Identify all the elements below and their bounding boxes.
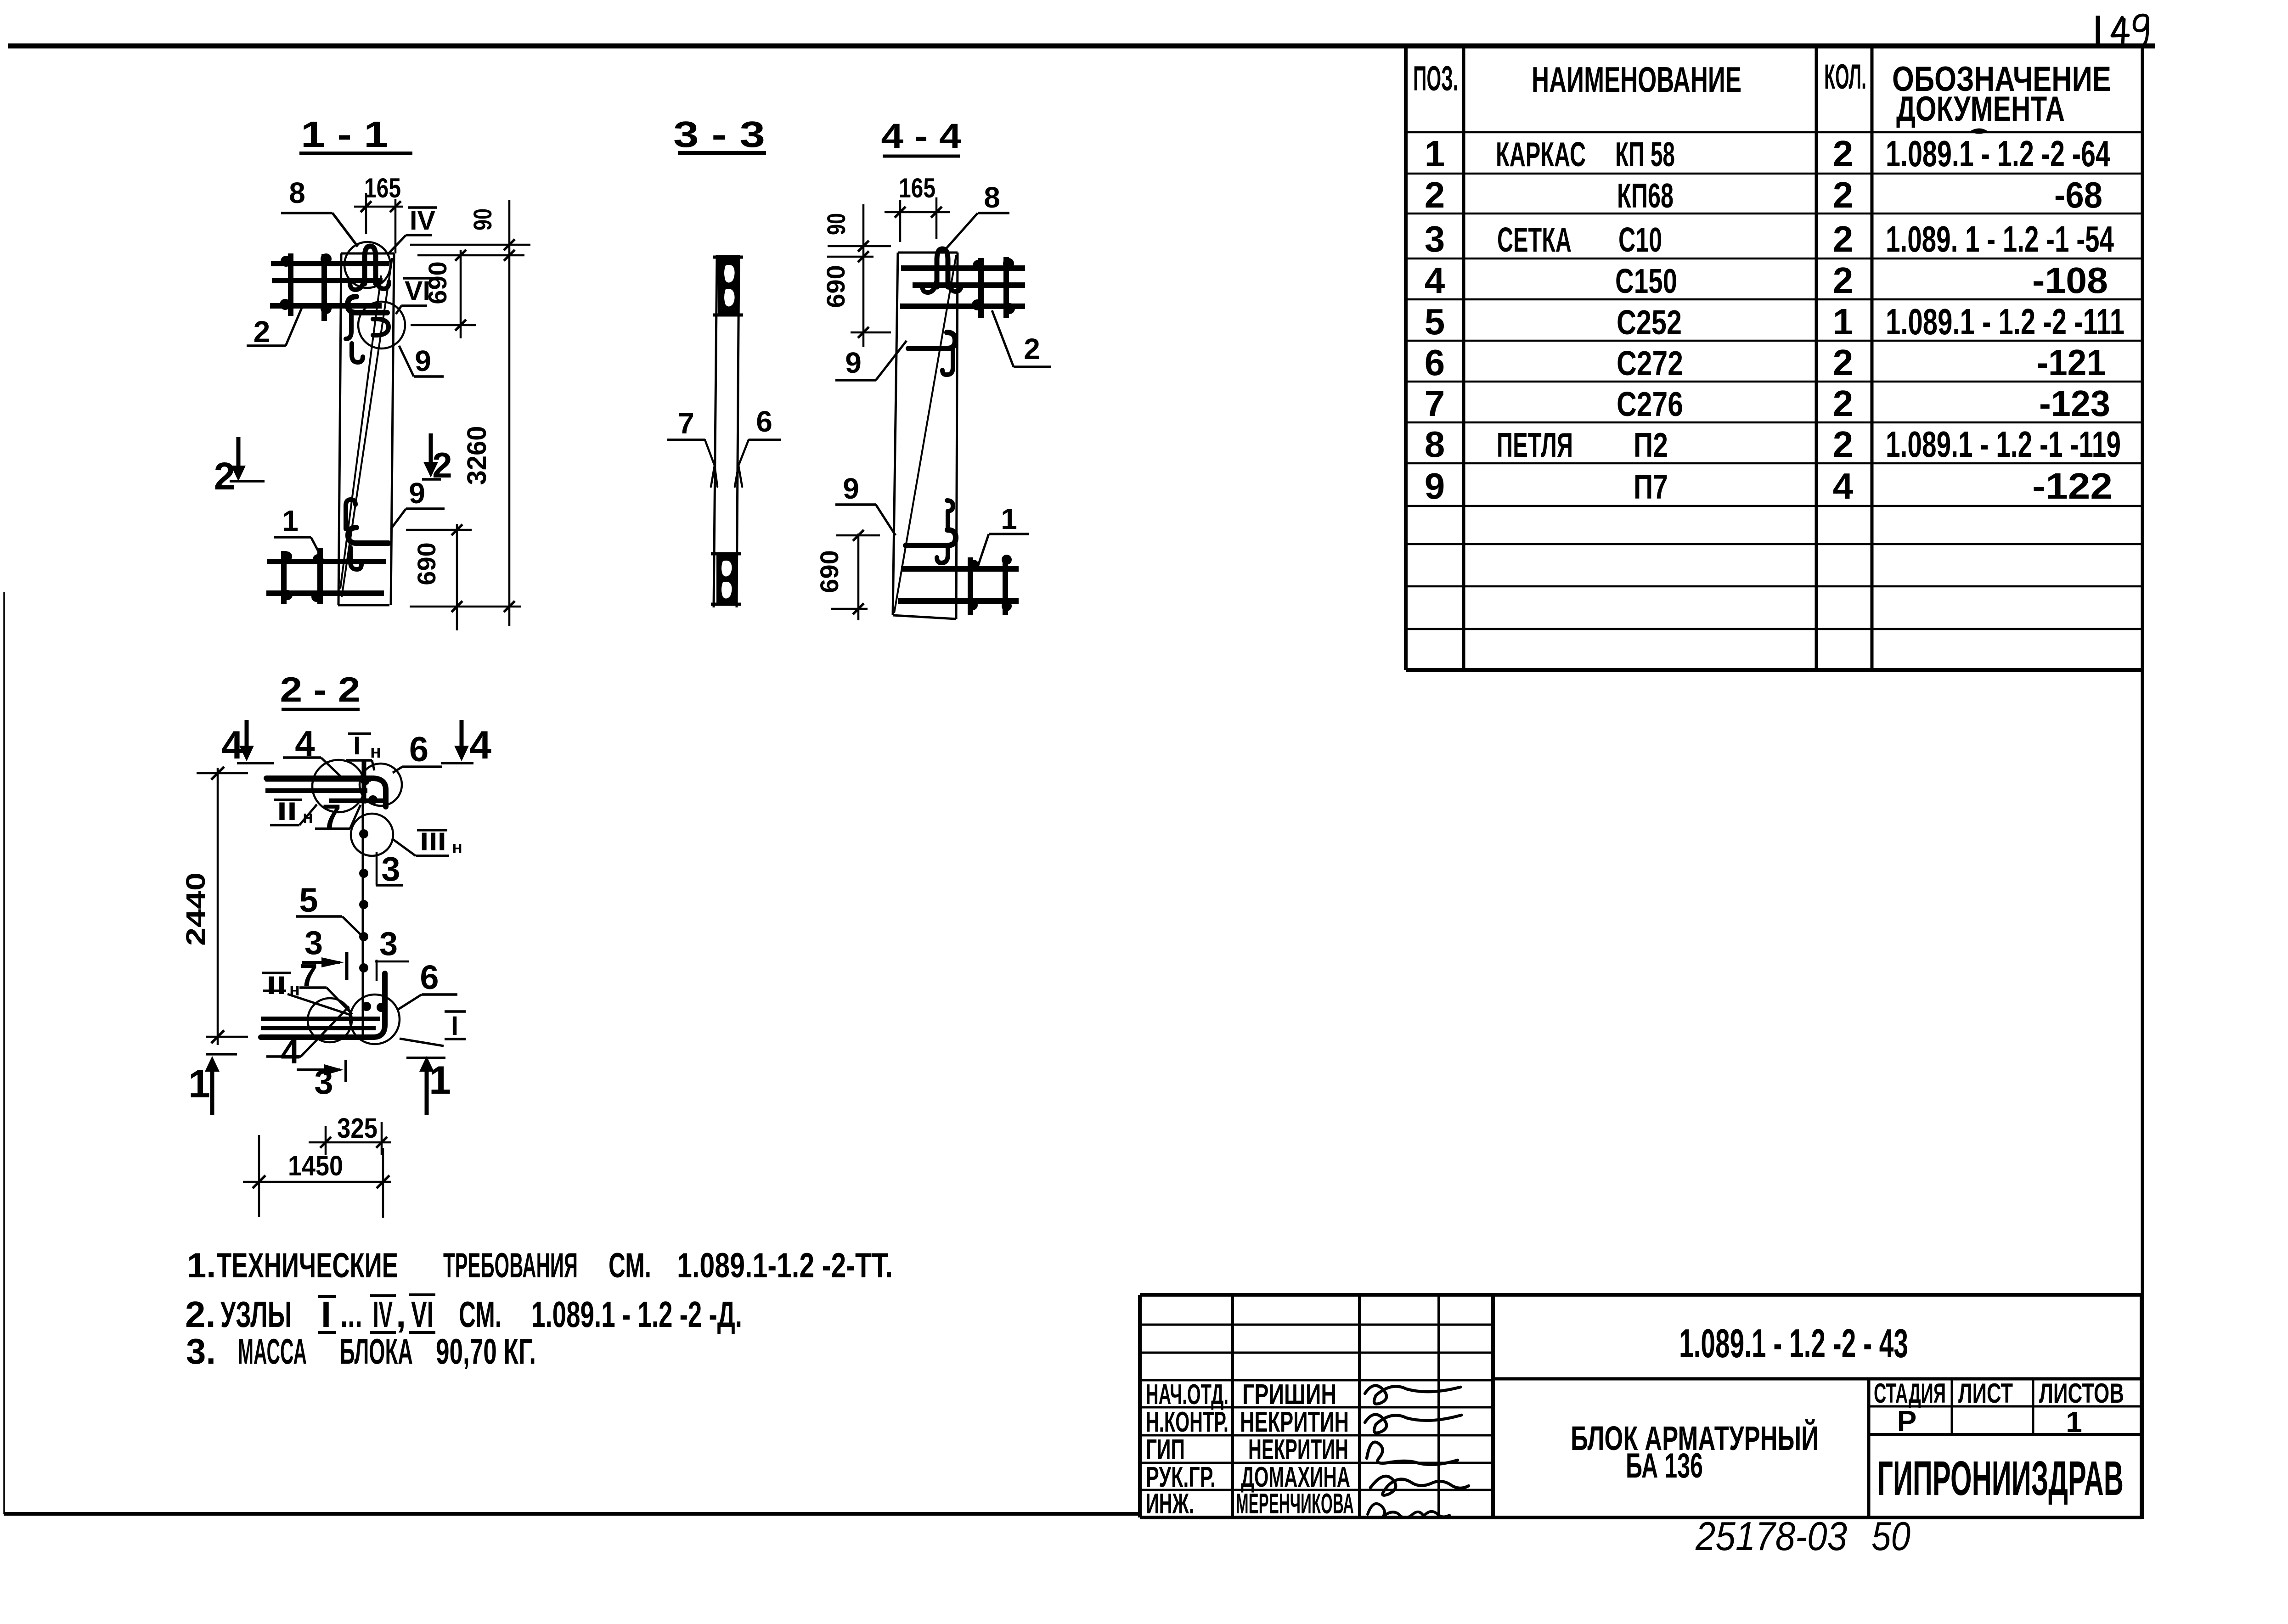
title block big box bbox=[1493, 1293, 2141, 1297]
svg-text:1: 1 bbox=[1001, 502, 1017, 535]
svg-text:-123: -123 bbox=[2039, 383, 2110, 424]
svg-text:2: 2 bbox=[1024, 332, 1040, 365]
svg-text:МАССА: МАССА bbox=[238, 1331, 307, 1371]
svg-text:НАЧ.ОТД.: НАЧ.ОТД. bbox=[1146, 1379, 1229, 1410]
svg-text:1.089.1 - 1.2 -2 -111: 1.089.1 - 1.2 -2 -111 bbox=[1886, 301, 2125, 342]
svg-text:3: 3 bbox=[304, 925, 323, 961]
svg-text:СМ.: СМ. bbox=[459, 1294, 502, 1335]
svg-text:НЕКРИТИН: НЕКРИТИН bbox=[1240, 1406, 1349, 1438]
2-2 detail circle upper A bbox=[312, 760, 365, 812]
svg-text:5: 5 bbox=[1425, 301, 1445, 342]
4-4 inner diagonal bbox=[894, 255, 956, 613]
2-2 vertical bar with dots (pos 5 wire) bbox=[362, 760, 364, 1039]
svg-text:С150: С150 bbox=[1615, 262, 1677, 300]
svg-text:90,70 КГ.: 90,70 КГ. bbox=[436, 1331, 536, 1371]
signature ГРИШИН bbox=[1365, 1386, 1460, 1404]
svg-text:7: 7 bbox=[1425, 383, 1445, 424]
svg-text:н: н bbox=[452, 838, 462, 857]
svg-text:3: 3 bbox=[1425, 219, 1445, 259]
svg-text:9: 9 bbox=[1425, 466, 1445, 506]
svg-text:8: 8 bbox=[1425, 424, 1445, 465]
svg-text:3.: 3. bbox=[186, 1331, 216, 1371]
svg-text:Р: Р bbox=[1897, 1405, 1917, 1438]
svg-text:ТЕХНИЧЕСКИЕ: ТЕХНИЧЕСКИЕ bbox=[217, 1246, 398, 1285]
bottom border line bbox=[4, 1512, 1140, 1516]
svg-text:4: 4 bbox=[469, 723, 491, 767]
svg-text:2: 2 bbox=[254, 315, 271, 348]
svg-text:IV: IV bbox=[373, 1294, 393, 1335]
svg-text:1: 1 bbox=[2066, 1405, 2082, 1439]
svg-text:2: 2 bbox=[1833, 383, 1854, 424]
svg-text:1450: 1450 bbox=[288, 1150, 343, 1181]
svg-text:690: 690 bbox=[815, 550, 844, 593]
svg-text:I: I bbox=[451, 1011, 458, 1041]
svg-text:2: 2 bbox=[1425, 174, 1445, 215]
parts table frame bbox=[1404, 46, 1408, 670]
svg-text:4 - 4: 4 - 4 bbox=[881, 117, 962, 156]
svg-text:1.089.1 - 1.2 -1 -119: 1.089.1 - 1.2 -1 -119 bbox=[1886, 424, 2121, 465]
svg-text:НЕКРИТИН: НЕКРИТИН bbox=[1248, 1434, 1348, 1466]
svg-text:КП68: КП68 bbox=[1617, 176, 1674, 215]
top border line bbox=[8, 44, 2155, 49]
svg-text:690: 690 bbox=[821, 265, 850, 308]
svg-text:КП 58: КП 58 bbox=[1615, 135, 1675, 174]
svg-text:ГРИШИН: ГРИШИН bbox=[1242, 1379, 1336, 1410]
1-1 detail circle VI bbox=[358, 302, 405, 348]
svg-text:П7: П7 bbox=[1634, 467, 1668, 506]
svg-text:2: 2 bbox=[214, 455, 236, 498]
svg-text:1.089.1 - 1.2 -2 -64: 1.089.1 - 1.2 -2 -64 bbox=[1886, 133, 2110, 174]
svg-text:,: , bbox=[396, 1294, 406, 1335]
svg-text:3260: 3260 bbox=[462, 426, 492, 485]
1-1 inner diagonal lines bbox=[342, 258, 392, 597]
svg-text:2.: 2. bbox=[185, 1294, 216, 1335]
svg-text:ГИПРОНИИЗДРАВ: ГИПРОНИИЗДРАВ bbox=[1877, 1451, 2124, 1506]
svg-text:9: 9 bbox=[415, 344, 431, 377]
1-1 mesh КП58 (pos 1) bottom bbox=[267, 559, 386, 564]
svg-text:ЛИСТОВ: ЛИСТОВ bbox=[2039, 1378, 2124, 1409]
svg-text:3: 3 bbox=[381, 850, 400, 888]
2-2 detail circle upper B bbox=[360, 764, 402, 806]
svg-text:ИНЖ.: ИНЖ. bbox=[1146, 1488, 1194, 1520]
svg-text:МЕРЕНЧИКОВА: МЕРЕНЧИКОВА bbox=[1236, 1488, 1354, 1520]
1-1 mesh C272 (pos 2) top bbox=[271, 261, 389, 266]
svg-text:КАРКАС: КАРКАС bbox=[1496, 135, 1586, 174]
svg-text:СТАДИЯ: СТАДИЯ bbox=[1874, 1378, 1946, 1409]
svg-text:I: I bbox=[321, 1294, 331, 1335]
signature НЕКРИТИН bbox=[1365, 1415, 1461, 1433]
svg-text:ЛИСТ: ЛИСТ bbox=[1958, 1378, 2013, 1409]
3-3 top mesh bundle section bbox=[718, 255, 739, 315]
svg-text:I: I bbox=[353, 731, 361, 760]
4-4 hook П7 (pos 9) upper bbox=[908, 332, 955, 348]
svg-text:С272: С272 bbox=[1617, 344, 1683, 382]
svg-text:2: 2 bbox=[1833, 133, 1854, 174]
svg-text:...: ... bbox=[340, 1294, 362, 1335]
svg-text:1: 1 bbox=[1833, 301, 1854, 342]
4-4 hook П7 (pos 9) lower bbox=[947, 500, 953, 528]
svg-text:II: II bbox=[266, 971, 287, 1000]
4-4 mesh КП68 (pos 1) bottom right bbox=[901, 566, 1019, 572]
3-3 panel edges bbox=[714, 255, 717, 607]
2-2 top mesh bars bbox=[265, 777, 371, 782]
svg-text:2: 2 bbox=[1833, 260, 1854, 301]
svg-text:-122: -122 bbox=[2032, 466, 2113, 506]
1-1 detail circle IV bbox=[344, 242, 390, 288]
svg-text:2: 2 bbox=[1833, 424, 1854, 465]
svg-text:1.089.1-1.2 -2-ТТ.: 1.089.1-1.2 -2-ТТ. bbox=[677, 1246, 893, 1285]
svg-text:1.: 1. bbox=[187, 1246, 216, 1285]
svg-text:2: 2 bbox=[1833, 219, 1854, 259]
svg-text:ДОКУМЕНТА: ДОКУМЕНТА bbox=[1896, 90, 2065, 129]
title block stamp table bbox=[1138, 1295, 1142, 1517]
1-1 lifting loop П2 (pos 8) bbox=[365, 246, 376, 284]
svg-text:8: 8 bbox=[984, 181, 1000, 214]
ink blot under table header bbox=[1971, 129, 1987, 133]
4-4 mesh С276 (pos 2) top right bbox=[901, 265, 1025, 271]
svg-text:н: н bbox=[370, 742, 381, 762]
svg-text:2: 2 bbox=[1833, 342, 1854, 383]
svg-text:1 - 1: 1 - 1 bbox=[301, 114, 388, 155]
svg-text:1.089. 1 - 1.2 -1 -54: 1.089. 1 - 1.2 -1 -54 bbox=[1886, 219, 2114, 259]
svg-text:ТРЕБОВАНИЯ: ТРЕБОВАНИЯ bbox=[443, 1246, 578, 1285]
svg-text:2: 2 bbox=[1833, 174, 1854, 215]
signature МЕРЕНЧИКОВА bbox=[1368, 1504, 1449, 1518]
svg-text:С10: С10 bbox=[1618, 220, 1662, 259]
svg-text:690: 690 bbox=[423, 261, 452, 304]
left border line bbox=[3, 592, 5, 1514]
svg-text:3: 3 bbox=[379, 926, 398, 962]
right border line bbox=[2141, 46, 2144, 1519]
svg-text:БЛОКА: БЛОКА bbox=[340, 1331, 413, 1371]
svg-text:2 - 2: 2 - 2 bbox=[280, 670, 361, 709]
2-2 top bent bar Г (pos 6) bbox=[266, 778, 386, 807]
svg-text:1: 1 bbox=[429, 1058, 451, 1102]
svg-text:П2: П2 bbox=[1634, 426, 1668, 464]
svg-text:4: 4 bbox=[1833, 466, 1854, 506]
svg-text:9: 9 bbox=[845, 346, 862, 379]
signature ДОМАХИНА bbox=[1370, 1476, 1469, 1495]
svg-text:6: 6 bbox=[756, 405, 772, 438]
svg-text:СМ.: СМ. bbox=[609, 1246, 651, 1285]
svg-text:9: 9 bbox=[843, 472, 859, 505]
1-1 hook П7 (pos 9) lower bbox=[346, 500, 355, 529]
svg-text:-121: -121 bbox=[2037, 342, 2106, 383]
svg-text:VI: VI bbox=[411, 1294, 434, 1335]
2-2 detail circle lower C bbox=[308, 998, 352, 1042]
4-4 panel outline bbox=[893, 253, 898, 615]
svg-text:325: 325 bbox=[337, 1113, 378, 1144]
svg-text:165: 165 bbox=[899, 173, 935, 203]
svg-text:690: 690 bbox=[412, 542, 441, 585]
3-3 bottom mesh bundle section bbox=[716, 552, 738, 606]
svg-text:4: 4 bbox=[1425, 260, 1445, 301]
svg-text:НАИМЕНОВАНИЕ: НАИМЕНОВАНИЕ bbox=[1532, 59, 1741, 100]
svg-text:90: 90 bbox=[822, 213, 851, 235]
svg-text:С276: С276 bbox=[1617, 385, 1683, 423]
1-1 panel outline bbox=[338, 253, 341, 605]
svg-text:6: 6 bbox=[1425, 342, 1445, 383]
svg-text:С252: С252 bbox=[1617, 303, 1682, 342]
svg-text:3 - 3: 3 - 3 bbox=[673, 114, 765, 155]
parts table row lines bbox=[1406, 131, 2142, 134]
svg-text:25178-03: 25178-03 bbox=[1695, 1513, 1847, 1559]
svg-text:5: 5 bbox=[299, 881, 318, 919]
svg-text:165: 165 bbox=[364, 173, 401, 203]
page number tick bbox=[2096, 16, 2100, 48]
svg-text:КОЛ.: КОЛ. bbox=[1824, 57, 1866, 96]
svg-text:ГИП: ГИП bbox=[1146, 1434, 1185, 1466]
4-4 lifting loop П2 (pos 8) bbox=[937, 249, 948, 287]
svg-text:1.089.1 - 1.2 -2 - 43: 1.089.1 - 1.2 -2 - 43 bbox=[1679, 1321, 1908, 1366]
1-1 hook П7 (pos 9) upper bbox=[348, 297, 387, 313]
2-2 detail circle lower D bbox=[350, 995, 400, 1044]
svg-text:2440: 2440 bbox=[181, 872, 211, 946]
svg-text:СЕТКА: СЕТКА bbox=[1497, 220, 1572, 259]
svg-text:1: 1 bbox=[1425, 133, 1445, 174]
svg-text:90: 90 bbox=[468, 208, 497, 230]
svg-text:6: 6 bbox=[420, 958, 439, 996]
svg-text:9: 9 bbox=[409, 477, 425, 510]
2-2 bottom bent bar Г bbox=[261, 973, 385, 1037]
svg-text:1: 1 bbox=[282, 504, 299, 537]
svg-text:7: 7 bbox=[678, 407, 694, 440]
svg-text:БА 136: БА 136 bbox=[1626, 1446, 1703, 1485]
2-2 detail circle IIIн C bbox=[351, 814, 393, 856]
svg-text:-68: -68 bbox=[2054, 174, 2102, 215]
svg-text:-108: -108 bbox=[2032, 260, 2108, 301]
svg-text:ПОЗ.: ПОЗ. bbox=[1413, 59, 1458, 98]
svg-text:6: 6 bbox=[409, 730, 428, 769]
svg-text:50: 50 bbox=[1871, 1513, 1910, 1559]
svg-text:8: 8 bbox=[289, 176, 305, 209]
svg-text:УЗЛЫ: УЗЛЫ bbox=[220, 1294, 292, 1335]
signature НЕКРИТИН (ГИП) bbox=[1367, 1442, 1458, 1465]
svg-text:Н.КОНТР.: Н.КОНТР. bbox=[1146, 1406, 1229, 1438]
svg-text:ПЕТЛЯ: ПЕТЛЯ bbox=[1497, 426, 1573, 464]
svg-text:4: 4 bbox=[221, 723, 243, 767]
page number 49 bbox=[2112, 17, 2128, 36]
svg-text:1.089.1 - 1.2 -2 -Д.: 1.089.1 - 1.2 -2 -Д. bbox=[531, 1294, 742, 1335]
2-2 bottom mesh bars bbox=[261, 1017, 380, 1021]
svg-text:IV: IV bbox=[410, 206, 435, 236]
